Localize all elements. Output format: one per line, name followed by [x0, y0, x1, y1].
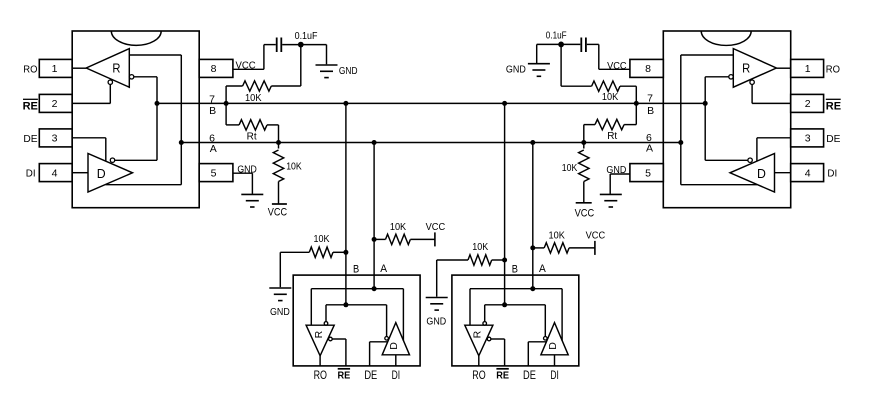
svg-text:D: D — [388, 342, 400, 350]
wire U4 A node down to driver output — [681, 143, 757, 185]
wire U1 A node down to driver output — [106, 143, 182, 185]
ground symbol (B bias) — [269, 288, 291, 301]
junction B bus at stub — [502, 101, 507, 106]
U4 pin 2 box — [791, 94, 824, 112]
wire R6 lower lead — [583, 182, 585, 203]
C1 value label 0.1uF — [295, 31, 318, 42]
svg-text:GND: GND — [426, 316, 446, 327]
wire internal A net — [470, 289, 562, 341]
U1 VCC label (pin 8) — [236, 61, 256, 72]
U4 pin 7 label — [647, 92, 653, 104]
junction internal B net — [343, 302, 348, 307]
U1 GND label (pin 5) — [237, 164, 256, 175]
wire A stub down into transceiver — [532, 143, 534, 289]
receiver enable bubble — [487, 337, 491, 341]
R2 value label 10K — [286, 161, 302, 172]
svg-text:B: B — [209, 105, 216, 117]
svg-text:10K: 10K — [549, 230, 566, 241]
10K value label — [549, 230, 566, 241]
wire DI input stub — [395, 355, 397, 366]
wire Rt left lead to A line (right) — [584, 125, 595, 143]
resistor R1 10K (B to GND) — [243, 81, 272, 91]
RE label (overlined) — [496, 369, 509, 382]
IC U4 pin-1 notch arc — [701, 31, 751, 45]
U4 pin 8 box — [630, 59, 663, 77]
svg-text:A: A — [380, 263, 387, 275]
U1 R inverting input bubble (B) — [129, 75, 133, 79]
10K value label — [472, 242, 488, 253]
U4 GND label (pin 5) — [606, 165, 626, 176]
U4 driver inverting output bubble (B) — [748, 158, 752, 162]
svg-text:VCC: VCC — [586, 230, 606, 241]
VCC terminal bar (A bias) — [434, 232, 436, 246]
wire DE enable — [528, 342, 546, 366]
svg-text:1: 1 — [805, 63, 811, 75]
wire Rt right lead to A line — [267, 125, 279, 143]
wire 10K-to-GND left lead — [437, 260, 468, 297]
wire R1 upper lead — [271, 45, 301, 86]
wire U4 R non-inverting input (A) — [681, 55, 734, 143]
svg-text:GND: GND — [339, 66, 358, 77]
resistor 10K (A to VCC bias) — [544, 243, 569, 253]
Rt label — [247, 132, 257, 143]
U1 RO label — [23, 64, 37, 75]
U4 pin 1 number — [805, 63, 811, 75]
IC U1 pin-1 notch arc — [111, 31, 161, 45]
U1 pin 1 number — [52, 63, 58, 75]
svg-text:A: A — [539, 263, 546, 275]
R6 value label 10K — [562, 163, 578, 174]
U4 driver letter D — [757, 166, 766, 181]
U1 driver D triangle — [88, 154, 133, 193]
wire U1 DE pin3 to driver enable — [72, 138, 106, 162]
node label B (stub) — [512, 264, 518, 276]
capacitor C2 0.1uF plates — [581, 38, 586, 53]
svg-text:10K: 10K — [286, 161, 302, 172]
svg-text:10K: 10K — [562, 163, 578, 174]
svg-text:RO: RO — [826, 64, 840, 75]
driver inverting output bubble — [385, 337, 389, 341]
U4 DE label — [826, 134, 841, 145]
junction internal A net — [372, 286, 377, 291]
U4 pin 3 number — [805, 133, 811, 145]
wire U1 DI pin4 to driver input — [72, 172, 88, 174]
junction internal A net — [530, 286, 535, 291]
svg-text:10K: 10K — [472, 242, 488, 253]
ground symbol (C1, left) — [316, 65, 338, 78]
svg-text:RE: RE — [338, 370, 351, 382]
GND label (C1, left) — [339, 66, 358, 77]
junction B stub at 10K bias — [343, 250, 348, 255]
wire R1 lower lead to B line — [226, 86, 243, 103]
svg-text:VCC: VCC — [426, 222, 446, 233]
wire U4 internal B node down to driver bubble — [705, 103, 748, 160]
U1 pin 5 number — [211, 167, 217, 179]
svg-text:3: 3 — [52, 133, 58, 145]
svg-text:D: D — [97, 166, 106, 181]
svg-text:RO: RO — [472, 370, 485, 382]
wire 10K-to-VCC left lead — [374, 238, 385, 240]
svg-text:A: A — [210, 143, 217, 155]
driver inverting output bubble — [544, 337, 548, 341]
wire Rt left lead — [226, 103, 239, 125]
R1 value label 10K — [245, 93, 262, 104]
junction B line at R1/Rt (left) — [224, 101, 229, 106]
svg-text:R: R — [742, 61, 750, 76]
wire 10K-to-GND right lead — [333, 251, 346, 253]
VCC label (right A pull-up) — [575, 208, 595, 220]
junction U4 internal A node — [678, 140, 683, 145]
VCC label (left A pull-up) — [268, 207, 287, 219]
svg-text:7: 7 — [647, 92, 653, 104]
U1 pin 3 number — [52, 133, 58, 145]
U4 VCC label (pin 8) — [607, 61, 627, 72]
svg-text:2: 2 — [52, 98, 58, 110]
wire 10K-to-VCC left lead — [533, 247, 544, 249]
wire C1 to GND — [282, 45, 326, 65]
U4 pin 2 number — [805, 98, 811, 110]
svg-text:B: B — [512, 264, 518, 276]
resistor R6 10K (A to VCC, right) — [579, 150, 589, 182]
GND label (C2, right) — [506, 65, 526, 76]
U4 R inverting input bubble (B) — [729, 75, 733, 79]
RE label (overlined) — [338, 369, 351, 382]
U4 pin 5 number — [645, 167, 651, 179]
resistor 10K (B to GND bias) — [468, 255, 492, 265]
svg-text:8: 8 — [211, 63, 217, 75]
U1 driver inverting output bubble (B) — [110, 158, 114, 162]
10K value label — [314, 234, 330, 245]
svg-text:GND: GND — [506, 65, 526, 76]
resistor R5 10K (B to GND, right) — [592, 81, 620, 91]
U1 pin 1 box — [39, 59, 72, 77]
U1 pin 5 box — [199, 164, 233, 182]
svg-text:0.1uF: 0.1uF — [546, 31, 567, 42]
wire R6 upper lead — [583, 143, 585, 149]
junction A bus at stub — [530, 140, 535, 145]
wire U1 R inverting input to B node — [134, 77, 157, 104]
junction B line at R5/Rt (right) — [634, 101, 639, 106]
C2 value label 0.1uF — [546, 31, 567, 42]
svg-text:GND: GND — [270, 307, 290, 318]
junction U1 internal A node — [179, 140, 184, 145]
DI label — [550, 370, 559, 382]
U1 pin 4 number — [52, 167, 58, 179]
svg-text:4: 4 — [52, 167, 58, 179]
receiver letter R — [313, 330, 325, 338]
svg-text:10K: 10K — [390, 222, 407, 233]
svg-text:8: 8 — [645, 63, 651, 75]
receiver R triangle — [306, 325, 334, 356]
svg-text:5: 5 — [211, 167, 217, 179]
U4 pin 8 number — [645, 63, 651, 75]
node label A (stub) — [539, 263, 546, 275]
wire internal B net — [326, 305, 387, 337]
U1 pin 4 box — [39, 164, 72, 182]
junction A stub at 10K bias — [530, 245, 535, 250]
wire Rt right lead (right) — [624, 103, 636, 124]
wire U4 pin5 to ground — [610, 174, 630, 194]
svg-text:10K: 10K — [314, 234, 330, 245]
junction C1/R1 GND-side node — [298, 42, 304, 48]
svg-text:R: R — [313, 330, 325, 338]
svg-text:DE: DE — [826, 134, 841, 145]
receiver inverting input bubble — [483, 322, 487, 326]
wire 10K-to-GND right lead — [492, 259, 505, 261]
receiver enable bubble — [329, 337, 333, 341]
U1 DE label — [23, 134, 38, 145]
svg-text:3: 3 — [805, 133, 811, 145]
wire U4 DE pin3 to driver enable — [757, 138, 791, 162]
VCC terminal bar (left A pull-up) — [272, 203, 287, 205]
ground symbol (U4 pin 5) — [600, 194, 622, 207]
wire R2 upper lead — [278, 143, 280, 149]
svg-text:DI: DI — [827, 169, 837, 180]
node label B (stub) — [353, 264, 359, 276]
U1 pin 8 box — [199, 59, 233, 77]
U1 driver letter D — [97, 166, 106, 181]
IC U1 (RS-485 transceiver, left) package outline — [72, 31, 199, 208]
DE label — [523, 370, 536, 382]
svg-text:B: B — [353, 264, 359, 276]
wire U4 R inverting input to B node — [705, 77, 729, 104]
svg-text:Rt: Rt — [607, 131, 617, 142]
DI label — [392, 370, 401, 382]
R5 value label 10K — [602, 92, 619, 103]
junction C2/R5 GND-side node — [558, 42, 564, 48]
wire U1 RE pin2 to R enable — [72, 84, 110, 103]
wire RO output stub — [319, 356, 321, 366]
svg-text:A: A — [646, 143, 653, 155]
U4 pin 1 box — [791, 59, 824, 77]
U4 receiver R triangle — [733, 49, 776, 88]
wire B stub down into transceiver — [504, 103, 506, 304]
wire internal A net — [311, 289, 403, 341]
svg-text:DI: DI — [26, 169, 36, 180]
U1 receiver letter R — [112, 61, 120, 76]
U4 DI label — [827, 169, 837, 180]
U4 pin 3 box — [791, 129, 824, 147]
U1 R enable bubble — [108, 80, 112, 84]
svg-text:DI: DI — [392, 370, 401, 382]
junction A bus at stub — [372, 140, 377, 145]
wire U4 RE pin2 to R enable — [752, 84, 791, 103]
wire R5 lower lead to B line — [620, 86, 636, 103]
svg-text:RE: RE — [826, 100, 841, 112]
GND label (B bias) — [426, 316, 446, 327]
svg-text:R: R — [472, 330, 484, 338]
svg-text:10K: 10K — [602, 92, 619, 103]
ground symbol (U1 pin 5) — [241, 194, 263, 207]
U1 pin 6 label — [209, 132, 215, 144]
driver letter D — [388, 342, 400, 350]
IC U4 (RS-485 transceiver, right) package outline — [663, 31, 790, 208]
U1 DI label — [26, 169, 36, 180]
wire U1 internal B node down to driver bubble — [115, 103, 157, 160]
driver letter D — [547, 342, 559, 350]
node label A (stub) — [380, 263, 387, 275]
resistor 10K (B to GND bias) — [309, 247, 333, 257]
svg-text:B: B — [647, 105, 654, 117]
svg-text:4: 4 — [805, 167, 811, 179]
svg-text:DI: DI — [550, 370, 559, 382]
junction A line at Rt/R2 (left) — [276, 140, 281, 145]
svg-text:D: D — [757, 166, 766, 181]
wire internal B net — [485, 305, 546, 337]
driver D triangle — [382, 323, 409, 355]
svg-text:RE: RE — [496, 370, 509, 382]
U1 pin 7 label — [209, 93, 215, 105]
U4 pin 4 box — [791, 164, 824, 182]
svg-text:RO: RO — [23, 64, 37, 75]
transceiver box (middle unit) — [293, 275, 420, 366]
svg-text:10K: 10K — [245, 93, 262, 104]
U4 R enable bubble — [750, 80, 754, 84]
svg-text:RO: RO — [314, 370, 327, 382]
svg-text:RE: RE — [23, 100, 38, 112]
wire 10K-to-VCC right lead — [569, 247, 595, 249]
wire U1 pin1 to R output — [72, 67, 86, 69]
wire RE enable — [491, 339, 505, 366]
U1 pin 2 box — [39, 94, 72, 112]
svg-text:Rt: Rt — [247, 132, 257, 143]
resistor Rt (left termination) — [239, 120, 267, 130]
U4 pin 5 box — [630, 164, 663, 182]
node label A (right) — [646, 143, 653, 155]
svg-text:VCC: VCC — [268, 207, 287, 219]
wire U4 pin8 VCC to capacitor C2 — [587, 44, 630, 69]
svg-text:VCC: VCC — [575, 208, 595, 220]
wire C2 to GND — [537, 44, 581, 63]
wire 10K-to-VCC right lead — [410, 238, 435, 240]
svg-text:5: 5 — [645, 167, 651, 179]
VCC terminal bar (right A pull-up) — [576, 202, 592, 204]
wire DE enable — [370, 342, 388, 366]
U1 pin 2 number — [52, 98, 58, 110]
VCC label (A bias) — [586, 230, 606, 241]
RO label — [472, 370, 485, 382]
wire RE enable — [332, 339, 346, 366]
svg-text:D: D — [547, 342, 559, 350]
GND label (B bias) — [270, 307, 290, 318]
U1 pin 8 number — [211, 63, 217, 75]
U4 RO label — [826, 64, 840, 75]
wire RO output stub — [478, 356, 480, 366]
resistor 10K (A to VCC bias) — [386, 234, 411, 244]
U4 RE label (active low, overlined) — [826, 99, 841, 112]
junction B stub at 10K bias — [502, 258, 507, 263]
U1 RE label (active low, overlined) — [23, 99, 38, 112]
junction U1 internal B node — [155, 101, 160, 106]
U4 pin 4 number — [805, 167, 811, 179]
node label A (left) — [210, 143, 217, 155]
receiver inverting input bubble — [324, 322, 328, 326]
U1 pin 3 box — [39, 129, 72, 147]
wire DI input stub — [554, 355, 556, 366]
capacitor C1 0.1uF plates — [277, 38, 282, 53]
wire U1 R non-inverting input (A) — [129, 55, 181, 143]
node label B (left) — [209, 105, 216, 117]
wire B stub down into transceiver — [345, 103, 347, 304]
wire A stub down into transceiver — [373, 143, 375, 289]
DE label — [364, 370, 377, 382]
svg-text:DE: DE — [364, 370, 377, 382]
resistor Rt (right termination) — [595, 119, 624, 129]
receiver letter R — [472, 330, 484, 338]
junction U4 internal B node — [703, 101, 708, 106]
junction B bus at stub — [343, 101, 348, 106]
VCC terminal bar (A bias) — [594, 241, 596, 255]
RO label — [314, 370, 327, 382]
wire U1 pin8 VCC to capacitor C1 — [233, 45, 276, 70]
junction A stub at 10K bias — [372, 237, 377, 242]
driver D triangle — [541, 323, 568, 355]
svg-text:R: R — [112, 61, 120, 76]
receiver R triangle — [465, 325, 493, 356]
wire 10K-to-GND left lead — [280, 252, 309, 287]
svg-text:DE: DE — [523, 370, 536, 382]
wire U4 DI pin4 to driver input — [775, 172, 791, 174]
svg-text:1: 1 — [52, 63, 58, 75]
wire R5 upper lead — [561, 44, 592, 86]
Rt label (right) — [607, 131, 617, 142]
ground symbol (C2, right) — [528, 64, 550, 77]
junction A line at Rt/R6 (right) — [581, 140, 586, 145]
U4 receiver letter R — [742, 61, 750, 76]
svg-text:2: 2 — [805, 98, 811, 110]
junction internal B net — [502, 302, 507, 307]
10K value label — [390, 222, 407, 233]
U4 driver D triangle — [730, 154, 775, 193]
ground symbol (B bias) — [426, 298, 448, 311]
svg-text:0.1uF: 0.1uF — [295, 31, 318, 42]
wire B bus line — [157, 102, 705, 104]
VCC label (A bias) — [426, 222, 446, 233]
U1 receiver R triangle — [86, 49, 129, 88]
node label B (right) — [647, 105, 654, 117]
svg-text:DE: DE — [23, 134, 38, 145]
wire U4 pin1 to R output — [776, 67, 790, 69]
wire A bus line — [181, 142, 681, 144]
transceiver box (middle unit) — [452, 275, 579, 366]
wire U1 pin5 to ground — [233, 173, 253, 194]
resistor R2 10K (A to VCC, left) — [273, 150, 283, 182]
wire R2 lower lead — [278, 182, 280, 205]
U4 pin 6 label — [646, 132, 652, 144]
svg-text:VCC: VCC — [607, 61, 627, 72]
